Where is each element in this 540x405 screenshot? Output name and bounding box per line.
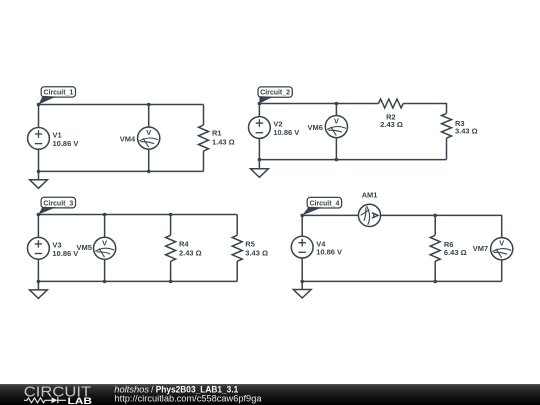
wire Circuit_3 top rail	[38, 214, 237, 216]
voltage source V2	[249, 117, 271, 139]
wire V4 leads	[301, 215, 303, 281]
svg-text:2.43 Ω: 2.43 Ω	[380, 120, 403, 129]
svg-text:Circuit_4: Circuit_4	[309, 198, 340, 207]
node bottom VM6	[335, 158, 339, 162]
svg-text:Circuit_1: Circuit_1	[44, 88, 74, 97]
svg-text:VM5: VM5	[76, 243, 91, 252]
svg-text:3.43 Ω: 3.43 Ω	[245, 248, 268, 257]
node top VM4	[147, 103, 151, 107]
svg-text:Circuit_3: Circuit_3	[43, 198, 73, 207]
ground Circuit_4	[293, 281, 311, 298]
svg-text:2.43 Ω: 2.43 Ω	[179, 248, 202, 257]
node bottom V1	[37, 170, 41, 174]
wire Circuit_2 top rail right	[403, 104, 446, 114]
svg-text:Circuit_2: Circuit_2	[260, 88, 290, 97]
wire Circuit_3 bottom rail	[38, 280, 237, 282]
svg-text:1.43 Ω: 1.43 Ω	[212, 137, 235, 146]
node N3 (Circuit_3 top-left)	[37, 213, 41, 217]
wire Circuit_2 bottom rail	[259, 159, 446, 161]
node bottom VM4	[147, 170, 151, 174]
voltmeter VM4	[138, 127, 160, 149]
svg-text:10.86 V: 10.86 V	[273, 128, 299, 137]
resistor R5	[232, 235, 242, 261]
wire Circuit_4 top rail left	[302, 214, 358, 216]
ground Circuit_1	[30, 171, 48, 188]
wire VM5 leads	[104, 215, 106, 282]
svg-text:AM1: AM1	[362, 190, 378, 199]
footer bar background	[0, 384, 540, 405]
wire V2 leads	[258, 104, 260, 160]
wire VM6 leads	[335, 104, 337, 160]
label Circuit_2 pointer wedge	[259, 96, 273, 103]
wire Circuit_2 top rail left	[259, 103, 378, 105]
wire Circuit_4 bottom rail	[302, 280, 502, 282]
resistor R2	[379, 99, 404, 108]
resistor R3	[442, 113, 452, 138]
wire V1 leads	[38, 105, 40, 172]
node bottom V2	[258, 158, 262, 162]
svg-text:V: V	[146, 128, 151, 137]
resistor R1	[199, 125, 209, 151]
label Circuit_3 pointer wedge	[38, 207, 56, 215]
svg-text:LAB: LAB	[68, 396, 93, 405]
svg-text:VM7: VM7	[473, 244, 488, 253]
CircuitLab logo resistor zigzag	[24, 398, 52, 403]
wire Circuit_1 top rail	[39, 104, 204, 106]
label Circuit_4 pointer wedge	[302, 207, 322, 216]
node bottom R6	[433, 280, 437, 284]
node bottom R4	[169, 280, 173, 284]
wire VM7 bottom lead	[501, 260, 503, 282]
svg-text:V: V	[334, 117, 339, 126]
wire R1 leads	[203, 105, 205, 172]
svg-text:V: V	[499, 239, 504, 248]
svg-text:VM4: VM4	[120, 135, 136, 144]
svg-text:http://circuitlab.com/c558caw6: http://circuitlab.com/c558caw6pf9ga	[115, 393, 262, 403]
voltage source V3	[28, 237, 50, 259]
node N1 (Circuit_1 top-left)	[37, 103, 41, 107]
node bottom VM5	[103, 280, 107, 284]
voltmeter VM6	[325, 116, 347, 138]
label Circuit_2 callout box	[258, 87, 292, 97]
svg-text:10.86 V: 10.86 V	[52, 249, 78, 258]
node top VM6	[335, 102, 339, 106]
label Circuit_3 callout box	[41, 197, 75, 208]
wire R5 leads	[236, 215, 238, 282]
wire VM4 leads	[148, 105, 150, 172]
node N4 (Circuit_4 top-left)	[300, 214, 304, 218]
ground Circuit_3	[30, 281, 48, 298]
svg-text:R5: R5	[245, 240, 255, 249]
wire Circuit_1 bottom rail	[39, 170, 204, 172]
voltmeter VM5	[94, 237, 116, 259]
resistor R4	[166, 235, 176, 261]
node N2 (Circuit_2 top-left)	[258, 102, 262, 106]
wire V3 leads	[37, 215, 39, 282]
svg-text:VM6: VM6	[307, 123, 322, 132]
label Circuit_1 pointer wedge	[39, 96, 57, 105]
resistor R6	[430, 235, 440, 261]
ammeter AM1	[358, 204, 380, 226]
wire R6 leads	[434, 215, 436, 281]
node top R4	[169, 213, 173, 217]
svg-text:6.43 Ω: 6.43 Ω	[444, 248, 467, 257]
svg-text:10.86 V: 10.86 V	[53, 139, 79, 148]
node bottom V4	[300, 280, 304, 284]
node bottom V3	[37, 280, 41, 284]
node top VM5	[103, 213, 107, 217]
voltmeter VM7	[491, 238, 513, 260]
svg-text:3.43 Ω: 3.43 Ω	[455, 127, 478, 136]
wire Circuit_4 top rail right	[381, 215, 502, 237]
wire R4 leads	[170, 215, 172, 282]
svg-text:V: V	[102, 238, 107, 247]
voltage source V1	[28, 127, 50, 149]
ground Circuit_2	[251, 160, 269, 178]
svg-text:R1: R1	[212, 129, 222, 138]
label Circuit_1 callout box	[41, 87, 75, 97]
svg-text:10.86 V: 10.86 V	[316, 248, 342, 257]
voltage source V4	[291, 236, 313, 258]
node top R6	[433, 214, 437, 218]
label Circuit_4 callout box	[307, 197, 341, 208]
svg-text:R4: R4	[179, 240, 189, 249]
CircuitLab logo diode	[52, 397, 58, 403]
wire R3 bottom lead	[446, 138, 448, 160]
